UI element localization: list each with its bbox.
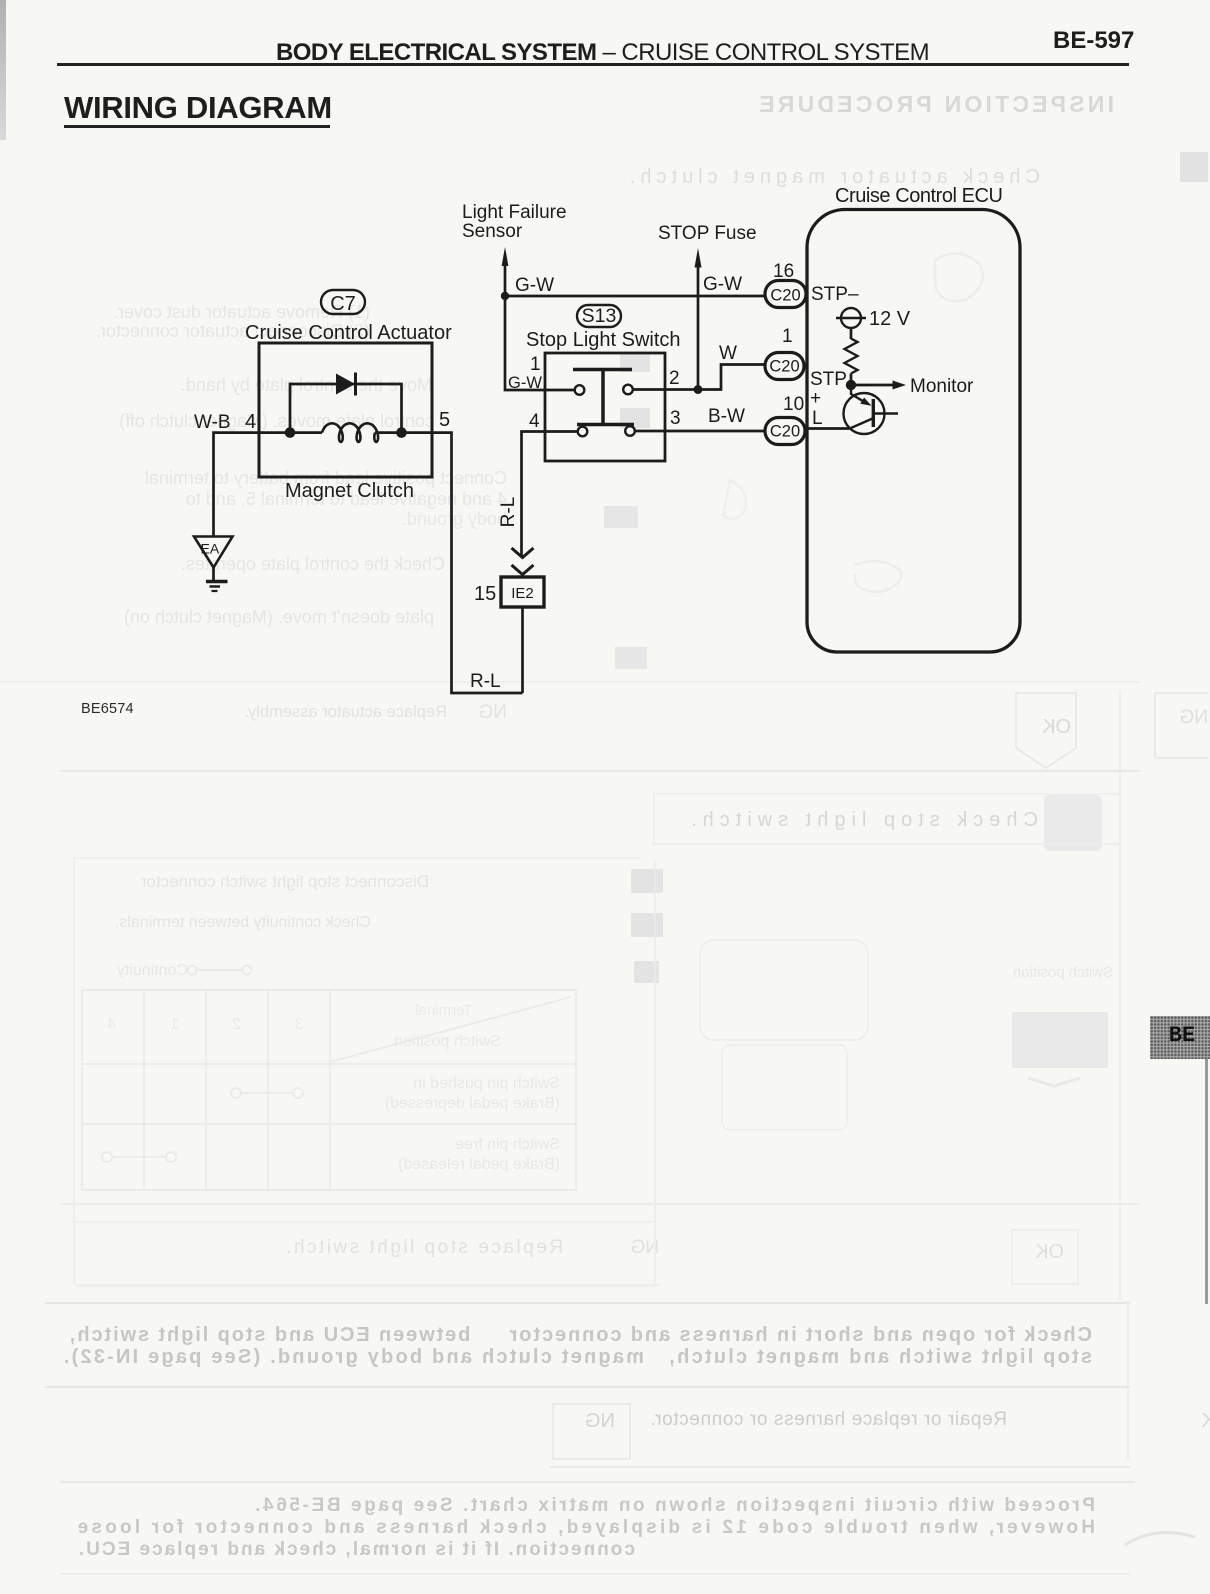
connector C7 oval [321,290,365,314]
svg-text:C20: C20 [770,287,800,305]
svg-text:4: 4 [529,411,540,432]
svg-text:W-B: W-B [194,412,231,433]
ground stem and bars [212,568,215,581]
svg-text:C20: C20 [770,423,800,441]
magnet clutch coil L1 [322,423,378,442]
svg-text:STP–: STP– [811,284,859,305]
resistor R1 [845,339,858,374]
svg-text:G-W: G-W [508,374,542,392]
svg-text:IE2: IE2 [511,585,534,602]
connector C20 pin 10 [765,418,805,445]
svg-text:C20: C20 [769,358,799,376]
svg-text:G-W: G-W [703,274,742,295]
connector IE2 box [501,577,544,607]
svg-text:Stop Light Switch: Stop Light Switch [526,329,681,351]
wire to Light Failure Sensor with arrow [504,264,507,296]
switch contact pin3 [625,426,635,436]
svg-text:1: 1 [782,326,793,347]
svg-text:3: 3 [670,408,681,429]
wire to STOP fuse with arrow [697,266,700,390]
svg-text:5: 5 [439,409,450,431]
wire junction to C20 pin 1 [698,365,765,390]
stop light switch box [545,353,665,461]
svg-text:L: L [812,408,823,429]
svg-text:W: W [719,343,737,364]
svg-text:+: + [810,388,821,409]
svg-text:Cruise Control Actuator: Cruise Control Actuator [245,322,452,344]
svg-text:STOP Fuse: STOP Fuse [658,223,757,244]
node dot left [285,427,296,438]
svg-text:S13: S13 [582,305,617,327]
switch plunger T [573,368,632,372]
wire C20 L to transistor [807,427,850,430]
node junction dot [501,292,509,300]
switch contact pin4 [578,427,588,437]
wire coil to pin5 [375,431,402,434]
connector S13 oval [577,305,621,327]
svg-text:R-L: R-L [470,671,501,692]
wire G-W to C20 pin 16 [505,295,765,298]
arrow chevrons [512,548,534,558]
svg-text:C7: C7 [330,293,356,315]
transistor Q1 [844,393,885,434]
wire pin2 to junction [633,388,698,391]
svg-text:4: 4 [245,411,256,433]
connector C20 pin 1 [765,353,804,380]
svg-text:Light Failure: Light Failure [462,202,567,223]
ground EA triangle [194,537,233,568]
12V supply symbol [841,308,861,328]
diode D1 loop wires [290,384,402,433]
wire 12V to resistor [850,328,853,339]
cruise control ECU box [807,210,1020,653]
svg-text:10: 10 [783,394,804,415]
svg-text:16: 16 [773,261,794,282]
node monitor junction [846,380,856,390]
svg-text:1: 1 [530,354,541,375]
svg-text:STP: STP [810,369,847,390]
wire pin4 down to IE2 [522,432,578,557]
svg-text:G-W: G-W [515,275,554,296]
svg-text:R-L: R-L [498,497,519,528]
node dot right [396,427,407,438]
svg-text:Magnet Clutch: Magnet Clutch [285,480,414,502]
monitor arrow wire [851,384,896,387]
wire W-B to ground [214,433,291,537]
switch contact pin2 [623,385,633,395]
svg-text:Cruise Control ECU: Cruise Control ECU [835,185,1003,207]
wire pin5 down and across [402,433,523,693]
connector C20 pin 16 [765,281,806,308]
wire G-W down to stop light switch pin 1 [505,296,575,390]
wire pin4 to coil [290,431,322,434]
svg-text:B-W: B-W [708,406,745,427]
svg-text:15: 15 [474,583,496,605]
svg-text:12 V: 12 V [869,308,911,330]
svg-text:Monitor: Monitor [910,376,974,397]
wire below IE2 [521,607,524,693]
svg-text:BE6574: BE6574 [81,701,134,717]
switch contact pin1 [575,385,585,395]
wire resistor to node [850,374,853,386]
wire pin3 to C20 pin 10 [635,430,765,433]
svg-text:Sensor: Sensor [462,221,523,242]
svg-text:EA: EA [201,541,220,557]
svg-text:2: 2 [669,368,680,389]
diode D1 [336,374,355,395]
actuator box [259,343,432,477]
node junction dot stop fuse [694,385,703,394]
